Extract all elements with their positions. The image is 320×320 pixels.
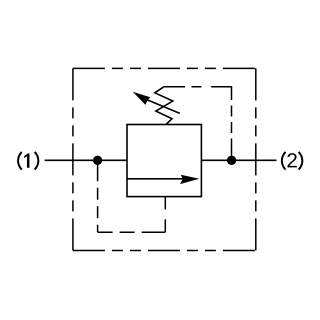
node: junction dot at port 2 branch [227,156,236,165]
wire: pilot line up to valve bottom (dashed) [164,197,166,233]
wire: pilot line from node 1 going down (dashed) [97,160,99,232]
enclosure: cartridge boundary right edge (dashed) [255,68,257,250]
wire: pilot line from spring top right and down to node 2 (dashed) [164,87,232,161]
wire: pilot line along bottom (dashed) [98,231,166,233]
enclosure: cartridge boundary bottom edge (dashed) [73,250,256,252]
spring: pressure setting spring [155,87,173,124]
valve V1: internal flow-path arrow [127,175,199,184]
wire: outlet line to port (2) [201,159,276,161]
port label (1) [18,152,38,170]
enclosure: cartridge boundary left edge (dashed) [72,68,74,250]
valve V1: relief valve envelope box [127,125,201,197]
node: junction dot at port 1 branch [93,156,102,165]
wire: inlet line from port (1) [45,159,127,161]
arrow: adjustment arrow through spring [133,92,180,114]
port label (2) [282,152,303,170]
enclosure: cartridge boundary top edge (dashed) [73,67,256,69]
